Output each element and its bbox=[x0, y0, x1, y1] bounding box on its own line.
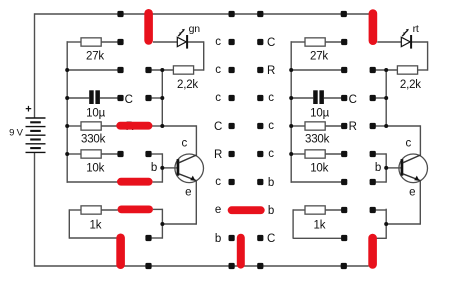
wire right capacitor row bbox=[291, 97, 387, 99]
transistor Q2 emitter label e bbox=[409, 186, 415, 198]
capacitor 10u left bbox=[86, 90, 105, 119]
wire right rail bbox=[290, 41, 292, 182]
battery value label 9 V bbox=[9, 128, 24, 139]
svg-text:R: R bbox=[267, 65, 275, 77]
node label C right block bbox=[349, 94, 357, 106]
resistor 2,2k right bbox=[397, 66, 421, 91]
node label R left block (under jumper) bbox=[126, 121, 134, 133]
svg-text:b: b bbox=[375, 162, 381, 174]
resistor 27k left bbox=[81, 38, 104, 62]
svg-text:9 V: 9 V bbox=[9, 128, 24, 139]
transistor Q1 collector label c bbox=[182, 138, 188, 150]
jumper red horizontal left row-e bbox=[118, 206, 154, 214]
wire left capacitor row bbox=[67, 97, 163, 99]
wire left 2.2k row bbox=[67, 69, 204, 71]
svg-text:C: C bbox=[267, 37, 275, 49]
junction dots left rail bbox=[65, 68, 69, 156]
terminal squares row y=98 bbox=[117, 95, 375, 101]
transistor Q2 bbox=[399, 154, 428, 183]
svg-text:b: b bbox=[151, 162, 157, 174]
node label R right block bbox=[349, 121, 357, 133]
terminal squares row y=70 bbox=[117, 67, 375, 73]
wire left base row bbox=[67, 181, 163, 183]
svg-text:27k: 27k bbox=[310, 50, 328, 62]
transistor Q1 base label b bbox=[151, 162, 157, 174]
wire left LED-to-2.2k vertical bbox=[203, 41, 205, 70]
svg-text:C: C bbox=[214, 121, 222, 133]
wire right 2.2k row bbox=[291, 69, 428, 71]
wire right emitter link bbox=[386, 223, 420, 225]
resistor 330k left bbox=[81, 122, 106, 146]
jumper red horizontal left row-base bbox=[117, 178, 153, 186]
svg-text:1k: 1k bbox=[90, 219, 102, 231]
wire left 10k row bbox=[67, 153, 163, 155]
svg-text:2,2k: 2,2k bbox=[400, 79, 421, 91]
wire right 27k row bbox=[291, 41, 345, 43]
wire left collector link bbox=[162, 125, 196, 155]
jumper red vertical left bottom bbox=[116, 234, 125, 270]
svg-text:c: c bbox=[268, 148, 274, 160]
terminal squares row y=182 bbox=[229, 179, 376, 185]
svg-text:R: R bbox=[349, 121, 357, 133]
terminal squares row y=126 bbox=[229, 123, 376, 129]
svg-text:rt: rt bbox=[413, 23, 419, 35]
svg-text:c: c bbox=[215, 36, 221, 48]
svg-text:330k: 330k bbox=[81, 134, 106, 146]
jumper red vertical center bottom bbox=[237, 234, 245, 269]
resistor 330k right bbox=[305, 122, 330, 146]
svg-text:10k: 10k bbox=[310, 163, 328, 175]
wire left base lead bbox=[162, 167, 176, 169]
svg-text:b: b bbox=[268, 205, 274, 217]
wire right base vertical bbox=[385, 153, 387, 182]
wire right cross-column vertical bbox=[385, 70, 387, 126]
svg-text:+: + bbox=[25, 103, 31, 115]
wire right row-b link bbox=[377, 237, 387, 239]
wire left 1k row bbox=[101, 208, 162, 211]
LED red rt bbox=[401, 23, 419, 49]
svg-text:c: c bbox=[268, 120, 274, 132]
wire battery top lead bbox=[34, 13, 36, 118]
junction dots left column bbox=[160, 68, 164, 226]
svg-text:c: c bbox=[182, 138, 188, 150]
jumper red vertical left top bbox=[144, 9, 153, 45]
resistor 1k right bbox=[305, 206, 326, 232]
svg-text:c: c bbox=[215, 92, 221, 104]
junction dots right rail bbox=[289, 68, 293, 156]
terminal squares row y=14 bbox=[117, 11, 347, 17]
resistor 10k left bbox=[81, 150, 105, 175]
wire right base row bbox=[291, 181, 387, 183]
svg-text:e: e bbox=[215, 204, 221, 216]
svg-text:10µ: 10µ bbox=[86, 108, 105, 120]
wire right 330k row bbox=[291, 125, 387, 127]
svg-text:C: C bbox=[267, 233, 275, 245]
transistor Q2 collector label c bbox=[406, 138, 412, 150]
wire right LED-to-2.2k vertical bbox=[427, 41, 429, 70]
resistor 27k right bbox=[305, 38, 328, 62]
svg-text:gn: gn bbox=[189, 23, 201, 35]
wire right LED row bbox=[377, 41, 427, 43]
svg-text:C: C bbox=[125, 94, 133, 106]
svg-text:330k: 330k bbox=[305, 134, 330, 146]
wire left cross-column vertical bbox=[161, 70, 163, 126]
wire left rail bbox=[66, 41, 68, 182]
terminal squares row y=238 bbox=[145, 235, 347, 241]
battery plus label bbox=[25, 103, 31, 115]
svg-text:C: C bbox=[349, 94, 357, 106]
wire right collector link bbox=[386, 125, 420, 155]
wire right 1k row bbox=[325, 209, 386, 211]
wire left emitter link bbox=[162, 223, 196, 225]
wire right base lead bbox=[386, 167, 401, 169]
svg-text:c: c bbox=[215, 64, 221, 76]
wire right emitter column vertical bbox=[385, 209, 387, 239]
svg-text:2,2k: 2,2k bbox=[177, 79, 198, 91]
wire right emitter vertical bbox=[419, 180, 421, 225]
wire left 1k left lead bbox=[69, 209, 116, 238]
svg-text:b: b bbox=[268, 177, 274, 189]
svg-text:27k: 27k bbox=[86, 50, 104, 62]
jumper red horizontal center row-e bbox=[228, 206, 265, 214]
wire left row-b link bbox=[149, 237, 163, 239]
svg-text:c: c bbox=[406, 138, 412, 150]
svg-text:b: b bbox=[215, 233, 221, 245]
LED green gn bbox=[177, 23, 200, 49]
resistor 1k left bbox=[81, 206, 102, 232]
wire bottom ground rail bbox=[35, 265, 369, 267]
node letters center-right column bbox=[267, 37, 275, 245]
svg-text:e: e bbox=[409, 186, 415, 198]
transistor Q1 emitter label e bbox=[185, 186, 191, 198]
wire top supply rail bbox=[35, 13, 374, 15]
wire left LED row bbox=[153, 41, 204, 43]
terminal squares row y=42 bbox=[117, 39, 347, 45]
resistor 2,2k left bbox=[173, 66, 198, 91]
svg-text:c: c bbox=[268, 92, 274, 104]
transistor Q2 base label b bbox=[375, 162, 381, 174]
svg-text:10k: 10k bbox=[86, 163, 104, 175]
jumper red vertical right bottom bbox=[368, 234, 377, 269]
terminal squares row y=210 bbox=[341, 207, 376, 213]
node label C left block bbox=[125, 94, 133, 106]
wire battery bottom lead bbox=[34, 152, 36, 266]
jumper red horizontal left row-R bbox=[116, 122, 152, 130]
transistor Q1 bbox=[175, 154, 204, 183]
junction dots right column bbox=[384, 68, 388, 226]
wire left emitter vertical bbox=[195, 180, 197, 225]
svg-text:e: e bbox=[185, 186, 191, 198]
wire left 330k row bbox=[67, 125, 163, 127]
wire left 27k row bbox=[67, 41, 121, 43]
svg-text:1k: 1k bbox=[314, 219, 326, 231]
wire left emitter column vertical bbox=[161, 209, 163, 239]
wire right 10k row bbox=[291, 153, 387, 155]
svg-text:R: R bbox=[214, 149, 222, 161]
terminal squares row y=266 bbox=[145, 263, 347, 269]
svg-text:10µ: 10µ bbox=[310, 108, 329, 120]
wire left base vertical bbox=[161, 153, 163, 182]
node letters center-left column bbox=[214, 36, 222, 245]
wire right 1k left lead bbox=[293, 209, 344, 238]
capacitor 10u right bbox=[310, 90, 329, 119]
svg-text:c: c bbox=[215, 176, 221, 188]
resistor 10k right bbox=[305, 150, 329, 175]
terminal squares row y=154 bbox=[117, 151, 375, 157]
battery 9V bbox=[26, 118, 46, 152]
jumper red vertical right top bbox=[369, 9, 378, 45]
